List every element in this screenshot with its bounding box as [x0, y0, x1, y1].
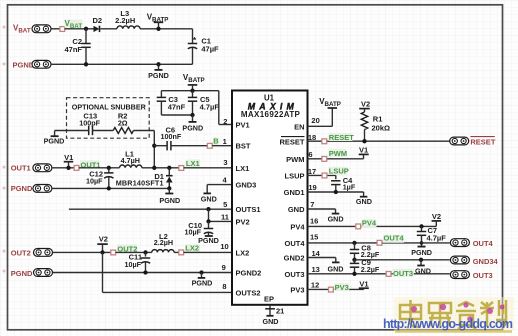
svg-text:PV4: PV4	[290, 222, 305, 231]
inductor L3	[115, 9, 140, 29]
capacitor C11	[124, 252, 150, 272]
node B	[207, 137, 219, 149]
svg-text:4.7µF: 4.7µF	[427, 234, 447, 243]
power V2	[419, 212, 441, 229]
wire	[184, 251, 232, 253]
wire GND34	[352, 258, 449, 262]
svg-text:EN: EN	[294, 122, 304, 131]
wire	[140, 28, 193, 30]
diode D1	[116, 168, 173, 189]
ground PGND	[159, 186, 180, 205]
pin 20 EN to VBATP	[308, 97, 341, 126]
wire snubber right	[93, 131, 155, 168]
wire	[51, 28, 60, 30]
pin 5	[223, 200, 227, 209]
capacitor C1	[188, 29, 219, 65]
pin 14 GND2	[308, 249, 344, 274]
pin 17 LSUP	[308, 167, 349, 178]
svg-text:1µF: 1µF	[343, 182, 356, 191]
junction	[352, 272, 356, 276]
pin 3	[223, 158, 227, 167]
svg-text:GND: GND	[263, 317, 279, 326]
svg-text:GND34: GND34	[473, 257, 499, 266]
ground PGND	[148, 62, 169, 80]
capacitor C6	[154, 126, 207, 151]
svg-text:OUT2: OUT2	[11, 249, 31, 258]
connector PGND	[11, 269, 53, 278]
wire PGND rail	[51, 63, 193, 65]
svg-text:5: 5	[223, 200, 227, 209]
capacitor C2	[64, 29, 90, 65]
connector PGND	[11, 184, 52, 193]
power V1	[359, 279, 369, 289]
optional snubber box	[67, 98, 150, 139]
wire PGND2 rail	[53, 270, 233, 274]
svg-text:OUTS1: OUTS1	[236, 205, 261, 214]
svg-text:19: 19	[308, 183, 316, 192]
wire	[116, 251, 152, 253]
node VBAT	[60, 19, 83, 31]
pin 19 GND1	[308, 183, 372, 206]
svg-text:OUT1: OUT1	[11, 163, 31, 172]
capacitor C13	[79, 112, 100, 136]
junction	[84, 62, 88, 66]
wire	[52, 167, 74, 169]
svg-text:OUT3: OUT3	[473, 271, 493, 280]
svg-text:PV4: PV4	[362, 218, 377, 227]
svg-text:MBR140SFT1: MBR140SFT1	[116, 179, 164, 188]
svg-text:B: B	[213, 137, 219, 146]
svg-text:20: 20	[311, 116, 319, 125]
node PV4	[356, 218, 377, 228]
pin 18	[308, 133, 316, 142]
svg-text:PWM: PWM	[329, 149, 347, 158]
connector VBAT	[13, 24, 51, 35]
svg-text:10µF: 10µF	[86, 176, 103, 185]
capacitor C10	[184, 221, 213, 236]
svg-text:GND: GND	[328, 265, 344, 274]
svg-text:GND1: GND1	[284, 188, 305, 197]
diode D2	[93, 16, 117, 32]
svg-text:LX2: LX2	[185, 243, 199, 252]
junction	[84, 27, 88, 31]
svg-text:100pF: 100pF	[79, 118, 100, 127]
svg-text:47µF: 47µF	[201, 45, 219, 54]
node OUT3	[386, 269, 414, 278]
margin ghost marks	[3, 26, 6, 273]
svg-text:47nF: 47nF	[168, 103, 186, 112]
svg-text:18: 18	[308, 133, 316, 142]
svg-text:13: 13	[312, 265, 320, 274]
svg-text:4.7µF: 4.7µF	[200, 103, 220, 112]
node LX1	[179, 159, 200, 170]
pin 11	[221, 212, 229, 221]
svg-text:PGND2: PGND2	[236, 269, 262, 278]
wire	[65, 28, 94, 30]
node OUT1	[74, 160, 100, 170]
svg-text:V2: V2	[361, 100, 370, 109]
svg-text:PGND: PGND	[44, 137, 65, 146]
svg-text:PGND: PGND	[182, 123, 203, 132]
svg-text:2.2µF: 2.2µF	[361, 265, 380, 274]
svg-text:PGND: PGND	[411, 248, 432, 257]
wire	[79, 167, 120, 169]
svg-text:3: 3	[223, 158, 227, 167]
svg-text:21: 21	[276, 307, 284, 316]
power V1	[64, 153, 74, 170]
svg-text:PV3: PV3	[290, 285, 304, 294]
svg-text:RESET: RESET	[329, 133, 354, 142]
svg-text:17: 17	[308, 167, 316, 176]
wire PGND rail	[52, 186, 169, 190]
wire OUTS1	[69, 208, 232, 210]
svg-text:1: 1	[223, 137, 227, 146]
power V2	[97, 235, 108, 255]
svg-text:LX1: LX1	[186, 159, 200, 168]
ground PGND	[182, 115, 203, 132]
svg-text:OUT4: OUT4	[384, 234, 405, 243]
capacitor C9	[350, 258, 380, 274]
svg-text:LSUP: LSUP	[284, 171, 304, 180]
svg-text:4.7µH: 4.7µH	[121, 156, 140, 165]
pin 6 PWM	[308, 149, 364, 162]
svg-text:OUT3: OUT3	[393, 269, 413, 278]
svg-text:2.2µH: 2.2µH	[115, 16, 135, 25]
svg-text:15: 15	[310, 233, 318, 242]
ground PGND	[44, 136, 65, 146]
svg-text:16: 16	[310, 216, 318, 225]
svg-text:PGND: PGND	[11, 269, 33, 278]
op-amp U1 MAX16922ATP	[232, 91, 308, 305]
svg-text:11: 11	[221, 212, 229, 221]
svg-text:OUT4: OUT4	[473, 239, 494, 248]
pin 10	[220, 242, 228, 251]
ground PGND	[198, 236, 219, 245]
junction	[206, 207, 210, 211]
svg-text:GND: GND	[201, 195, 217, 204]
capacitor C12	[86, 168, 114, 189]
capacitor C8	[350, 243, 380, 260]
pin 1	[223, 137, 227, 146]
svg-text:7: 7	[310, 200, 314, 209]
svg-text:LX2: LX2	[236, 248, 250, 257]
connector OUT2	[11, 249, 53, 258]
svg-text:GND: GND	[288, 205, 305, 214]
connector GND34	[450, 256, 498, 266]
power V1	[359, 146, 369, 159]
svg-text:9: 9	[222, 263, 226, 272]
wire top rail	[161, 89, 218, 93]
wire PV4	[308, 216, 437, 226]
svg-text:PGND: PGND	[192, 278, 213, 287]
pin 8	[222, 282, 226, 291]
svg-text:47nF: 47nF	[64, 45, 82, 54]
pin 2	[223, 117, 227, 126]
svg-text:12: 12	[311, 281, 319, 290]
wire	[212, 145, 232, 147]
wire OUTS2	[103, 252, 233, 292]
svg-text:14: 14	[312, 249, 321, 258]
wire	[208, 209, 210, 221]
svg-text:PGND: PGND	[11, 184, 33, 193]
svg-text:GND: GND	[356, 197, 372, 206]
wire OUT3	[308, 265, 450, 274]
power VBATP	[183, 73, 205, 91]
svg-text:R1: R1	[373, 115, 383, 124]
svg-text:2Ω: 2Ω	[118, 118, 128, 127]
inductor L1	[120, 150, 179, 168]
junction	[152, 166, 156, 170]
svg-text:OUTS2: OUTS2	[236, 288, 261, 297]
pin 7 GND	[308, 200, 344, 223]
node RESET	[322, 133, 354, 144]
svg-text:V2: V2	[99, 235, 108, 244]
svg-text:BST: BST	[236, 142, 251, 151]
node LX2	[179, 243, 200, 254]
svg-text:2: 2	[223, 117, 227, 126]
svg-text:10: 10	[220, 242, 228, 251]
power VBATP	[147, 13, 169, 31]
svg-text:PGND: PGND	[148, 71, 169, 80]
capacitor C5	[188, 91, 220, 115]
ground PGND	[411, 247, 432, 257]
svg-text:20kΩ: 20kΩ	[372, 123, 391, 132]
inductor L2	[152, 232, 179, 252]
node OUT2	[111, 244, 138, 255]
ground PGND	[192, 270, 213, 287]
svg-text:http://www.go-gddq.com: http://www.go-gddq.com	[383, 317, 513, 331]
svg-text:10µF: 10µF	[124, 260, 141, 269]
svg-text:PGND: PGND	[13, 60, 35, 69]
svg-text:V1: V1	[359, 279, 368, 288]
svg-text:PGND: PGND	[159, 196, 180, 205]
wire snubber left	[55, 131, 89, 137]
svg-text:PV3: PV3	[335, 283, 349, 292]
capacitor C3	[157, 91, 186, 115]
wire RESET	[308, 140, 451, 142]
svg-text:6: 6	[308, 150, 312, 159]
svg-text:LX1: LX1	[236, 164, 250, 173]
connector OUT4	[450, 239, 493, 248]
resistor R2	[113, 112, 133, 134]
node OUT4	[377, 234, 404, 246]
svg-text:PGND: PGND	[198, 236, 219, 245]
svg-text:D2: D2	[93, 16, 103, 25]
svg-text:RESET: RESET	[279, 138, 304, 147]
junction	[352, 241, 356, 245]
svg-text:PV1: PV1	[236, 121, 250, 130]
watermark	[394, 297, 514, 331]
wire PV2	[206, 219, 232, 223]
pin 9	[222, 263, 226, 272]
svg-text:LSUP: LSUP	[329, 167, 349, 176]
svg-text:V2: V2	[432, 212, 441, 221]
junction	[152, 144, 156, 148]
svg-text:V1: V1	[359, 146, 368, 155]
capacitor C4	[331, 175, 356, 192]
resistor R1	[359, 100, 390, 144]
connector OUT1	[11, 163, 52, 172]
svg-text:OPTIONAL SNUBBER: OPTIONAL SNUBBER	[72, 103, 147, 112]
svg-text:GND3: GND3	[236, 181, 257, 190]
svg-text:PWM: PWM	[286, 155, 304, 164]
wire	[184, 167, 232, 169]
capacitor C7	[417, 226, 446, 246]
pin 4 GND3	[201, 176, 232, 204]
svg-text:V1: V1	[64, 153, 73, 162]
svg-text:MAX16922ATP: MAX16922ATP	[241, 110, 301, 119]
connector PGND	[13, 60, 52, 69]
svg-text:8: 8	[222, 282, 226, 291]
svg-text:GND2: GND2	[284, 254, 305, 263]
pin 21 EP ground	[263, 305, 285, 326]
svg-text:100nF: 100nF	[161, 132, 182, 141]
svg-text:OUT3: OUT3	[284, 270, 304, 279]
svg-text:2.2µH: 2.2µH	[154, 238, 173, 247]
wire to PV1	[219, 91, 232, 125]
pin 12 PV3	[308, 281, 364, 292]
wire	[53, 251, 111, 253]
svg-text:RESET: RESET	[470, 138, 495, 147]
connector RESET	[450, 137, 496, 147]
svg-text:10µF: 10µF	[184, 228, 201, 237]
ground GND	[415, 258, 431, 276]
junction	[143, 250, 147, 254]
junction	[167, 166, 171, 170]
wire OUT4	[308, 233, 450, 243]
svg-text:OUT4: OUT4	[284, 239, 305, 248]
svg-text:GND: GND	[328, 214, 344, 223]
wire bottom rail	[161, 113, 194, 117]
connector OUT3	[450, 271, 492, 280]
svg-text:PV2: PV2	[236, 217, 250, 226]
junction	[107, 166, 111, 170]
svg-text:EP: EP	[264, 294, 274, 303]
